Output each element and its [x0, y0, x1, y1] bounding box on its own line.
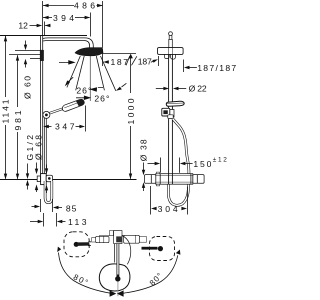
svg-text:394: 394: [53, 13, 74, 23]
hand shower holder ball left view: [43, 111, 50, 118]
wire top datum line: [0, 35, 87, 37]
spray cone left view: [67, 56, 116, 101]
dimension 12: [30, 22, 51, 36]
dimension 113: [30, 213, 66, 227]
valve body top view: [92, 231, 147, 244]
pipe right view: [168, 48, 170, 174]
hose left view: [44, 118, 46, 175]
svg-text:Ø 60: Ø 60: [23, 76, 33, 99]
svg-text:Ø 68: Ø 68: [34, 135, 44, 160]
svg-text:1141: 1141: [1, 99, 11, 123]
dimension 1141: [5, 36, 7, 179]
svg-text:26°: 26°: [94, 94, 109, 104]
label diameter 38: [143, 163, 145, 171]
dimension diameter 22: [156, 88, 186, 90]
dashed circle left: [64, 232, 89, 257]
svg-text:12: 12: [18, 21, 28, 31]
bowtie arrow marker: [110, 290, 117, 296]
spray angle leader right: [122, 83, 127, 87]
dimension 347: [45, 106, 86, 132]
label 187/187 right side: [183, 60, 185, 73]
dimension 85: [32, 199, 63, 212]
svg-text:113: 113: [68, 217, 87, 227]
hand shower wand left view: [47, 109, 63, 114]
dimension 394: [43, 13, 91, 37]
pipe left view: [40, 36, 42, 175]
svg-text:26°: 26°: [76, 85, 91, 95]
dimension 486: [43, 1, 103, 35]
overhead disc right view: [158, 48, 184, 55]
holder right view: [168, 110, 174, 118]
nozzle bosses under disc: [164, 54, 169, 58]
svg-text:981: 981: [13, 110, 23, 130]
svg-text:304: 304: [158, 204, 178, 214]
spray angle leader left: [68, 77, 73, 82]
svg-text:187/187: 187/187: [197, 63, 236, 73]
dimension 150+-12: [148, 158, 193, 173]
svg-text:Ø 22: Ø 22: [189, 84, 207, 94]
hose right view: [168, 119, 189, 206]
shower arm left view: [43, 38, 93, 48]
svg-text:150: 150: [193, 159, 211, 169]
svg-text:347: 347: [55, 122, 75, 132]
thermostat left view: [37, 176, 40, 182]
label diameter 68: [36, 163, 38, 170]
fitting right arrows: [46, 165, 48, 169]
hose loop below thermostat: [45, 181, 52, 203]
dimension 1000: [130, 55, 132, 179]
label G1/2: [27, 164, 29, 175]
hand shower right view: [166, 101, 184, 106]
dashed circle right: [150, 237, 175, 261]
label 187/187 left: [103, 1, 159, 66]
arc 80 left: [59, 253, 112, 294]
svg-text:85: 85: [66, 203, 77, 213]
wire datum connection line: [0, 179, 137, 181]
svg-text:187: 187: [111, 57, 129, 67]
dimension 304: [151, 186, 188, 215]
dimension 981: [17, 55, 19, 179]
ball joint knob: [169, 32, 173, 36]
arc 80 right: [123, 255, 178, 293]
thermostat right view: [145, 175, 156, 184]
label 26 deg no2: [76, 96, 90, 99]
svg-text:±12: ±12: [213, 157, 227, 164]
svg-text:486: 486: [74, 1, 95, 11]
arrow to head left edge: [59, 61, 74, 64]
overhead shower head left view: [75, 48, 103, 56]
dimension diameter 60: [9, 41, 40, 68]
svg-text:187: 187: [138, 56, 152, 66]
svg-text:Ø 38: Ø 38: [138, 139, 148, 161]
front handle top view: [114, 244, 116, 263]
escutcheon sleeve on pipe: [40, 50, 44, 61]
